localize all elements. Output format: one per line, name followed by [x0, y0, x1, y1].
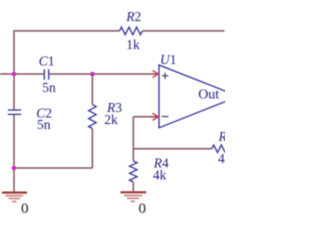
resistor R4 [130, 155, 169, 182]
node junction dot bottom left [12, 166, 17, 171]
svg-text:2k: 2k [104, 112, 118, 127]
wire R3 top lead [91, 74, 93, 105]
wire top horizontal left segment [14, 30, 120, 32]
pin arrow into minus input [152, 113, 158, 120]
ground 0 left [2, 193, 29, 217]
node junction dot at C1 right / R3 top [90, 72, 95, 77]
svg-text:U1: U1 [160, 52, 177, 67]
capacitor C2 [8, 105, 52, 131]
wire minus input horizontal [133, 116, 157, 118]
resistor R5 (partially cut at edge) [212, 129, 234, 166]
resistor R3 [89, 100, 123, 128]
capacitor C1 [39, 53, 56, 95]
wire top horizontal right segment [142, 30, 224, 32]
svg-text:4k: 4k [153, 168, 167, 183]
wire left vertical lower [13, 115, 15, 192]
pin arrow into plus input [152, 71, 158, 78]
node junction dot at left/mid wire [12, 72, 17, 77]
wire R4 top lead [132, 149, 134, 161]
ground 0 right [120, 192, 146, 217]
resistor R2 [120, 9, 143, 52]
wire C1 to op-amp plus input [49, 73, 157, 75]
svg-text:4k: 4k [218, 151, 225, 166]
svg-text:R2: R2 [125, 9, 141, 24]
wire left vertical upper [13, 30, 15, 109]
wire minus corner vertical [132, 117, 134, 149]
op-amp U1 [159, 52, 239, 128]
svg-text:0: 0 [21, 201, 29, 217]
wire bottom horizontal to left node [14, 167, 92, 169]
svg-text:R5: R5 [218, 129, 225, 144]
wire bottom right horizontal to R5 [133, 148, 212, 150]
svg-text:Out: Out [198, 87, 219, 102]
wire middle horizontal to C1 [0, 73, 44, 75]
wire R4 bottom lead [132, 182, 134, 191]
svg-text:5n: 5n [37, 117, 51, 132]
svg-text:C1: C1 [39, 53, 55, 68]
svg-text:5n: 5n [42, 80, 56, 95]
svg-text:0: 0 [139, 201, 147, 217]
svg-text:1k: 1k [126, 37, 140, 52]
wire R3 bottom lead down [91, 129, 93, 169]
